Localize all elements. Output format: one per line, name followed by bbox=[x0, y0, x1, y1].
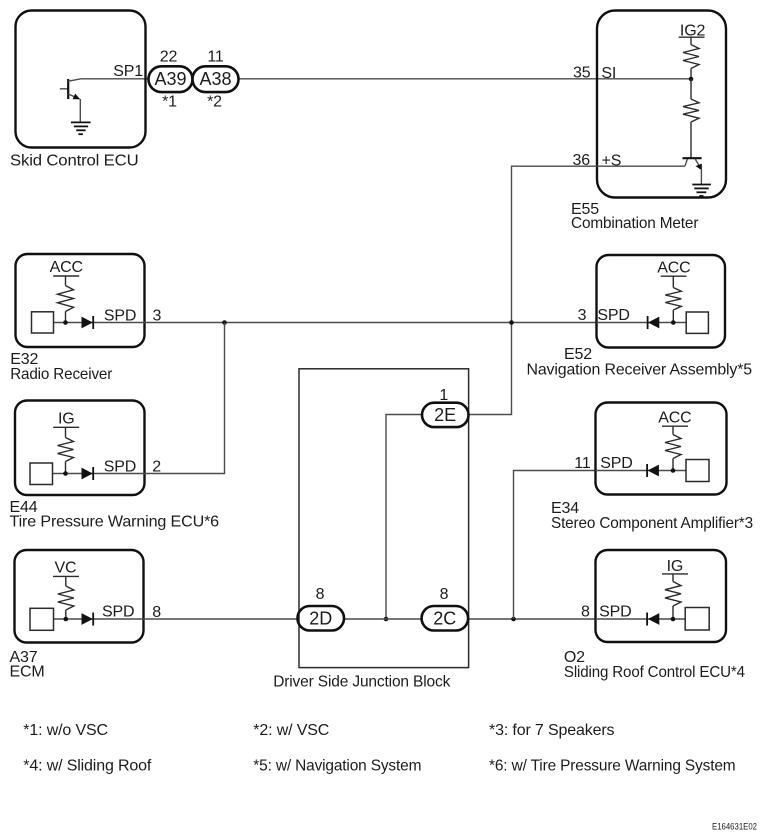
svg-text:Radio Receiver: Radio Receiver bbox=[10, 366, 113, 383]
Radio Receiver box E32 bbox=[16, 254, 145, 347]
net IG (O2) bbox=[662, 558, 688, 575]
svg-text:22: 22 bbox=[160, 49, 178, 66]
Skid Control ECU box bbox=[16, 11, 146, 148]
wire E44 up to E32 net bbox=[145, 323, 225, 474]
node internal riser junction bbox=[384, 617, 389, 622]
node (E32 resistor junction) bbox=[63, 320, 68, 325]
svg-text:2D: 2D bbox=[309, 609, 332, 629]
net ACC (E52) bbox=[657, 260, 690, 277]
svg-text:SPD: SPD bbox=[600, 455, 632, 472]
connector square (O2) bbox=[685, 608, 709, 631]
Navigation Receiver box E52 bbox=[597, 255, 726, 348]
svg-text:SPD: SPD bbox=[102, 604, 134, 621]
svg-text:ACC: ACC bbox=[658, 410, 691, 427]
svg-text:*6: w/ Tire Pressure Warning S: *6: w/ Tire Pressure Warning System bbox=[489, 757, 736, 774]
net ACC (E32) bbox=[50, 259, 83, 276]
net IG (E44) bbox=[53, 411, 79, 428]
wire 2C to O2 bbox=[468, 618, 595, 620]
node (A37 resistor junction) bbox=[64, 617, 69, 622]
svg-text:ECM: ECM bbox=[10, 663, 45, 680]
svg-text:VC: VC bbox=[55, 560, 77, 577]
connector square (E44) bbox=[30, 463, 53, 485]
svg-text:*4: w/ Sliding Roof: *4: w/ Sliding Roof bbox=[23, 757, 152, 774]
svg-text:*2: *2 bbox=[207, 94, 222, 111]
svg-text:A38: A38 bbox=[199, 69, 231, 89]
wire (E52 internal) bbox=[597, 322, 687, 324]
svg-text:Tire Pressure Warning ECU*6: Tire Pressure Warning ECU*6 bbox=[10, 514, 220, 531]
diode (E44) bbox=[82, 467, 94, 480]
svg-text:ACC: ACC bbox=[657, 260, 690, 277]
svg-text:IG: IG bbox=[58, 411, 75, 428]
wire A37 to 2D bbox=[144, 618, 298, 620]
resistor (A37) bbox=[58, 576, 74, 619]
svg-text:8: 8 bbox=[581, 603, 590, 620]
node SI junction bbox=[689, 77, 694, 82]
node (E44 resistor junction) bbox=[63, 471, 68, 476]
connector 2C pin 8 bbox=[422, 606, 469, 631]
Stereo Component Amplifier box E34 bbox=[596, 403, 727, 495]
connector square (E52) bbox=[686, 312, 708, 333]
node O2/E34 branch bbox=[511, 617, 516, 622]
resistor R1 (E55 upper) bbox=[683, 37, 699, 79]
svg-text:*3: for 7 Speakers: *3: for 7 Speakers bbox=[489, 722, 615, 739]
svg-text:11: 11 bbox=[207, 49, 224, 66]
wire (O2 internal) bbox=[596, 618, 686, 620]
Driver Side Junction Block box bbox=[299, 369, 469, 668]
svg-text:2C: 2C bbox=[433, 609, 456, 629]
transistor Q (skid control) bbox=[60, 79, 81, 122]
svg-text:SPD: SPD bbox=[104, 308, 136, 325]
node junction +S branch bbox=[509, 320, 514, 325]
svg-text:SPD: SPD bbox=[599, 603, 631, 620]
wire riser to E34 bbox=[514, 471, 596, 620]
svg-text:Stereo Component Amplifier*3: Stereo Component Amplifier*3 bbox=[551, 515, 753, 532]
wire (E34 internal) bbox=[596, 470, 687, 472]
connector square (A37) bbox=[30, 608, 54, 630]
wire (E44 internal) bbox=[53, 473, 145, 475]
connector 2E pin 1 bbox=[422, 403, 469, 427]
svg-text:+S: +S bbox=[602, 153, 622, 170]
resistor R2 (E55 lower) bbox=[683, 79, 699, 157]
svg-text:35: 35 bbox=[573, 65, 591, 82]
resistor (E52) bbox=[665, 276, 681, 322]
transistor Q (E55) bbox=[683, 158, 702, 184]
Combination Meter box E55 bbox=[597, 11, 726, 198]
svg-text:Sliding Roof Control ECU*4: Sliding Roof Control ECU*4 bbox=[564, 664, 745, 681]
resistor (E32) bbox=[58, 276, 74, 323]
svg-text:IG: IG bbox=[667, 558, 684, 575]
svg-text:Combination Meter: Combination Meter bbox=[571, 215, 699, 232]
wire E32 to E52 bbox=[145, 322, 597, 324]
svg-text:11: 11 bbox=[574, 455, 591, 472]
connector A39 pin 22 bbox=[149, 66, 193, 92]
ECM box A37 bbox=[15, 550, 144, 643]
svg-text:E164631E02: E164631E02 bbox=[712, 821, 757, 831]
wire A38 to E55 pin 35 bbox=[239, 78, 692, 80]
svg-text:SI: SI bbox=[601, 65, 616, 82]
svg-text:8: 8 bbox=[316, 586, 325, 603]
resistor (E34) bbox=[665, 426, 681, 470]
wire +S external bbox=[469, 166, 597, 414]
diode (E34) bbox=[647, 464, 659, 477]
resistor (O2) bbox=[665, 574, 681, 619]
svg-text:ACC: ACC bbox=[50, 259, 83, 276]
connector square (E32) bbox=[32, 312, 54, 333]
diode (A37) bbox=[82, 613, 94, 626]
node (O2 resistor junction) bbox=[671, 617, 676, 622]
svg-text:Navigation Receiver Assembly*5: Navigation Receiver Assembly*5 bbox=[527, 362, 753, 379]
diode (E32) bbox=[82, 316, 94, 329]
svg-text:*2: w/ VSC: *2: w/ VSC bbox=[253, 722, 329, 739]
net IG2 bbox=[679, 22, 706, 39]
diode (E52) bbox=[648, 316, 660, 329]
net ACC (E34) bbox=[658, 410, 691, 427]
resistor (E44) bbox=[58, 427, 74, 473]
wire +S internal bbox=[597, 165, 685, 167]
Sliding Roof Control ECU box O2 bbox=[596, 550, 727, 642]
connector A38 pin 11 bbox=[193, 66, 239, 92]
svg-text:Skid Control ECU: Skid Control ECU bbox=[10, 153, 139, 170]
ground (E55) bbox=[692, 185, 711, 197]
svg-text:2E: 2E bbox=[434, 405, 456, 425]
Tire Pressure Warning ECU box E44 bbox=[15, 401, 145, 496]
svg-text:A39: A39 bbox=[154, 69, 186, 89]
svg-text:SPD: SPD bbox=[104, 459, 136, 476]
net VC (A37) bbox=[53, 560, 79, 577]
wire (A37 internal) bbox=[54, 618, 144, 620]
svg-text:*1: *1 bbox=[162, 94, 177, 111]
svg-text:SP1: SP1 bbox=[113, 63, 143, 80]
svg-text:SPD: SPD bbox=[597, 307, 629, 324]
svg-text:1: 1 bbox=[439, 387, 448, 404]
svg-text:*5: w/ Navigation System: *5: w/ Navigation System bbox=[253, 757, 421, 774]
svg-text:8: 8 bbox=[440, 586, 449, 603]
wire (E32 internal) bbox=[54, 322, 145, 324]
diode (O2) bbox=[647, 613, 659, 626]
connector square (E34) bbox=[686, 460, 709, 482]
connector 2D pin 8 bbox=[298, 606, 345, 631]
node (E52 resistor junction) bbox=[671, 320, 676, 325]
svg-text:*1: w/o VSC: *1: w/o VSC bbox=[23, 722, 108, 739]
wire 2E to internal riser bbox=[386, 415, 422, 620]
ground (skid control) bbox=[71, 122, 91, 134]
svg-text:Driver Side Junction Block: Driver Side Junction Block bbox=[273, 674, 451, 691]
svg-text:3: 3 bbox=[578, 307, 587, 324]
node (E34 resistor junction) bbox=[671, 468, 676, 473]
wire 2D to 2C bbox=[344, 618, 422, 620]
node junction E44 branch bbox=[222, 320, 227, 325]
wire SP1 to A39 bbox=[81, 78, 149, 80]
